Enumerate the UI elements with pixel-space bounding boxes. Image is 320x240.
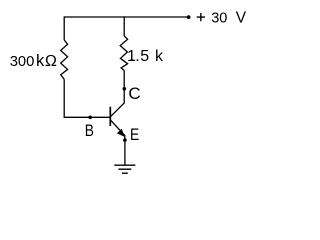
wire emitter node to ground [124, 140, 126, 165]
serif foot of digit 1 in 1.5 k label [130, 59, 134, 61]
transistor Q1 base bar [109, 107, 111, 126]
resistor R1 300 kohm zigzag [61, 40, 68, 79]
wire left branch lower segment and base wire to transistor [64, 79, 110, 117]
transistor Q1 emitter lead [110, 120, 125, 140]
wire collector lead into transistor [110, 89, 124, 117]
node dot C collector [123, 87, 127, 91]
wire from R2 to collector node C [123, 71, 125, 89]
wire left branch upper segment [63, 16, 65, 40]
svg-text:C: C [128, 84, 140, 103]
wire top rail from left branch to +30V terminal [64, 16, 188, 18]
svg-text:1.5k: 1.5k [127, 48, 164, 65]
svg-text:E: E [130, 126, 139, 144]
node dot E emitter [123, 138, 127, 142]
svg-text:B: B [85, 122, 94, 140]
wire right branch upper segment [123, 16, 125, 36]
svg-text:30V: 30V [211, 10, 247, 27]
plus sign of supply label [197, 13, 205, 21]
svg-text:300kΩ: 300kΩ [10, 52, 57, 70]
ground symbol [114, 165, 135, 173]
node dot +30V supply terminal [187, 15, 191, 19]
transistor Q1 emitter arrowhead [117, 129, 125, 137]
resistor R2 1.5 k zigzag [120, 36, 127, 71]
node dot B base [88, 116, 92, 120]
